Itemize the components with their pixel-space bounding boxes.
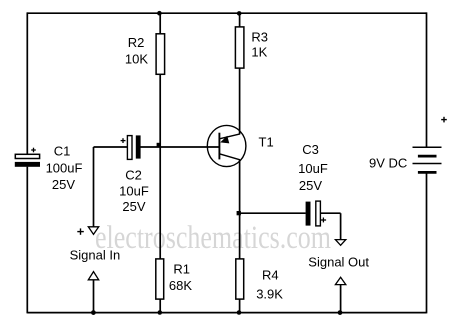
wire left rail upper (26, 12, 28, 154)
svg-text:C3: C3 (302, 142, 319, 157)
junction bottom R4 (237, 310, 242, 315)
capacitor C2 (127, 135, 140, 159)
junction bottom signal-out (338, 310, 343, 315)
wire C3 to signal-out (320, 212, 340, 214)
wire R2 bottom to R1 top (159, 74, 161, 260)
signal-in arrow up (88, 272, 98, 280)
plus battery (441, 117, 447, 123)
svg-text:C2: C2 (125, 168, 142, 183)
junction base node (157, 143, 161, 147)
plus C3 (321, 218, 326, 223)
wire signal-out drop (340, 213, 342, 240)
svg-text:R2: R2 (128, 35, 145, 50)
wire R1 bottom lead (159, 299, 161, 313)
svg-text:C1: C1 (54, 144, 71, 159)
resistor R3 (235, 27, 244, 68)
wire left rail lower (26, 167, 28, 314)
svg-text:R3: R3 (251, 29, 268, 44)
plus C2 (121, 138, 126, 143)
junction bottom signal-in (91, 310, 96, 315)
wire C2 to base (140, 146, 219, 148)
wire signal-in ground lead (93, 280, 95, 313)
wire right rail lower (426, 172, 428, 313)
svg-text:R1: R1 (173, 261, 190, 276)
wire signal-in drop (93, 147, 95, 227)
transistor T1 (207, 125, 246, 166)
svg-text:T1: T1 (259, 135, 274, 150)
wire bottom rail (27, 312, 426, 314)
battery B1 9V (413, 147, 442, 172)
junction top R2 (157, 11, 162, 16)
resistor R2 (156, 34, 165, 75)
svg-text:Signal In: Signal In (70, 247, 121, 262)
svg-text:9V DC: 9V DC (369, 156, 407, 171)
wire R2 top lead (159, 13, 161, 34)
svg-text:3.9K: 3.9K (256, 287, 283, 302)
svg-text:100uF: 100uF (46, 160, 83, 175)
plus signal-in (77, 228, 84, 234)
junction emitter node (237, 211, 241, 215)
svg-text:68K: 68K (169, 278, 192, 293)
svg-text:electroschematics.com: electroschematics.com (95, 220, 331, 256)
svg-text:10uF: 10uF (298, 161, 328, 176)
signal-out arrow up (335, 277, 345, 284)
wire emitter to C3 (240, 212, 306, 214)
svg-text:25V: 25V (122, 199, 145, 214)
svg-text:1K: 1K (251, 44, 267, 59)
signal-in arrow down (88, 227, 98, 235)
capacitor C3 (306, 201, 321, 226)
wire top rail (27, 12, 426, 14)
svg-text:Signal Out: Signal Out (308, 255, 369, 270)
svg-text:10uF: 10uF (119, 184, 149, 199)
junction bottom R1 (158, 310, 163, 315)
resistor R4 (236, 259, 244, 299)
wire signal-in to C2 (94, 146, 128, 148)
wire R3 top lead (239, 13, 241, 27)
svg-text:R4: R4 (262, 267, 279, 282)
plus C1 (31, 148, 36, 153)
capacitor C1 (15, 154, 40, 166)
svg-text:25V: 25V (299, 178, 322, 193)
junction top R3 (237, 11, 242, 16)
svg-text:25V: 25V (52, 177, 75, 192)
wire signal-out ground lead (340, 285, 342, 313)
signal-out arrow down (335, 240, 345, 246)
wire R4 bottom lead (239, 299, 241, 313)
resistor R1 (156, 259, 164, 299)
wire right rail upper (426, 12, 428, 147)
svg-text:10K: 10K (125, 52, 148, 67)
wire emitter to R4 top (239, 160, 241, 260)
wire R3 bottom to collector (239, 68, 241, 135)
